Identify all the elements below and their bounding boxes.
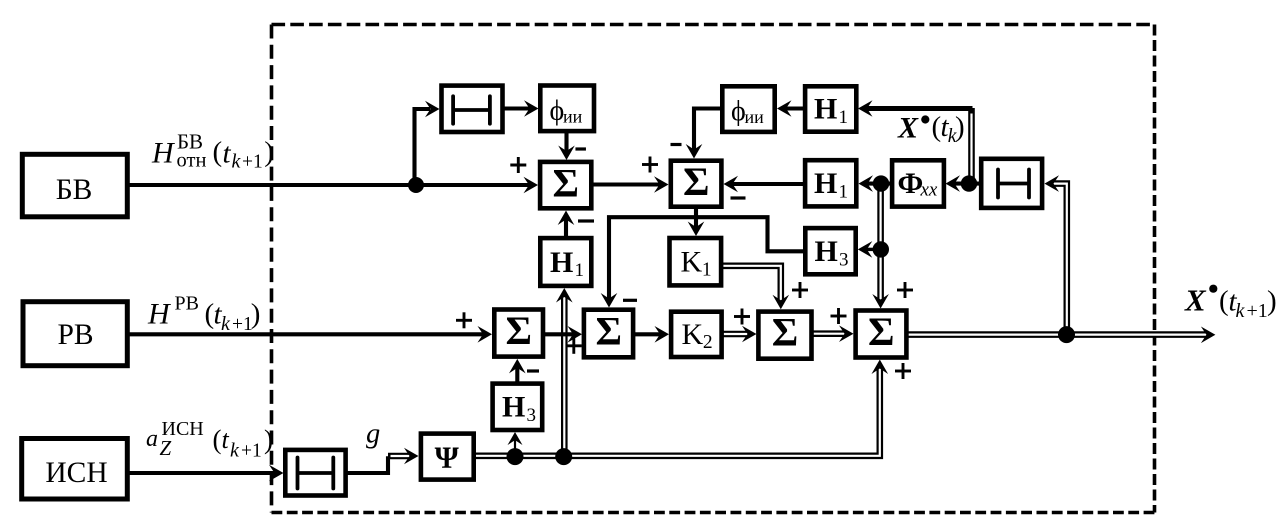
svg-text:1: 1 [839,181,849,202]
wire node to H1L double [556,288,573,456]
label H_otn^BV(t_k+1) [151,130,274,173]
plus before sum1 [510,157,526,173]
wire RV to sum_a [130,326,493,343]
wire feedback output to delay2 double [1045,175,1067,334]
svg-text:1: 1 [575,260,585,281]
summer 1 [540,160,591,208]
wire sum_a to sum_b [545,326,582,343]
block РВ [23,302,127,366]
minus at sum_a bottom [527,369,539,372]
block K2 [671,312,722,357]
plus at sum_d bottom [895,363,911,379]
minus at sum_b top [623,299,637,302]
wire sum_b to K2 [635,326,669,343]
wire K2 to sum_c double [724,326,757,343]
svg-text:Σ: Σ [772,310,798,355]
svg-text:(: ( [213,136,223,168]
wire H3bot to sum_a [509,359,526,382]
wire delay3 to Psi [348,448,419,473]
block H1 left [540,238,591,286]
block H3 bottom [493,384,543,430]
svg-text:): ) [1267,285,1277,317]
svg-text:X: X [897,112,919,145]
label X(t_k) [897,111,965,147]
svg-text:(: ( [1219,285,1229,317]
summer c [758,310,811,359]
svg-text:Н: Н [814,93,837,126]
block Phi_xx [892,160,944,206]
wire node up to delay1 [415,101,440,185]
plus before sum2 [642,157,658,173]
svg-text:Н: Н [814,167,837,200]
svg-text:Σ: Σ [596,309,622,354]
delay block 2 [981,159,1042,208]
label g [366,419,380,450]
wire node to H3bot [508,432,523,456]
wire H1top to phi2 [777,100,803,117]
wire phi1 to sum1 [558,133,575,160]
svg-text:3: 3 [839,249,849,270]
summer d [856,309,907,358]
block Psi [421,434,474,480]
label H^RV(t_k+1) [147,292,260,335]
svg-text:k: k [232,151,242,173]
svg-text:+1: +1 [241,441,262,462]
wire sum_c to sum_d double [813,325,854,342]
wire vertical double X(t_k) [968,108,975,184]
block K1 [670,238,722,285]
svg-text:+1: +1 [1247,300,1268,322]
delay block 1 [442,86,503,132]
plus before sum_c [734,309,750,325]
svg-text:): ) [264,424,273,454]
svg-text:РВ: РВ [57,319,93,351]
delay block 3 [285,450,345,496]
svg-text:БВ: БВ [56,174,93,206]
svg-text:k: k [221,313,231,335]
svg-text:t: t [223,138,232,170]
svg-text:Ψ: Ψ [435,440,460,475]
svg-text:): ) [251,298,261,330]
svg-text:Н: Н [815,235,838,268]
svg-text:K: K [682,318,704,351]
block H1 top [805,86,856,131]
svg-text:K: K [681,245,703,278]
wire sum_d output double [909,327,1216,344]
block БВ [22,154,127,217]
wire K1 to sum_c double [723,266,789,310]
dashed estimator frame [272,25,1155,513]
plus before sum_b [566,338,582,354]
svg-text:k: k [230,440,240,462]
wire Psi output double to sum_d bottom [476,360,889,456]
svg-text:+1: +1 [232,314,253,335]
svg-text:Z: Z [160,436,172,460]
svg-text:Н: Н [550,246,573,279]
block H1 mid [805,160,856,206]
wire Phi_xx to H1mid [859,175,891,192]
block phi_ii 1 [540,86,594,132]
node H3top feed [873,241,889,257]
svg-text:Н: Н [502,391,525,424]
wire H3top to sum_b [601,217,804,307]
wire H1L to sum1 [558,211,575,237]
wire BV to sum1 [130,177,539,194]
svg-text:1: 1 [702,259,712,280]
svg-text:): ) [955,111,965,143]
svg-text:X: X [1184,283,1207,318]
wire sum1 to sum2 [593,176,669,193]
svg-text:ии: ии [745,107,765,127]
svg-text:2: 2 [703,332,713,353]
wire sum2 to K1 [688,209,705,236]
svg-text:a: a [146,426,158,452]
wire delay2 to Phi_xx [946,175,980,192]
block ИСН [22,439,128,500]
minus at phi2 arrow [671,143,682,146]
block phi_ii 2 [722,86,774,132]
svg-text:Σ: Σ [868,309,894,354]
wire double node down to sum_d top [872,184,889,309]
wire X(t_k) feedback to H1top [858,100,973,117]
wire delay1 to phi1 [505,100,539,117]
node Psi line to H3bot [507,448,524,465]
svg-text:3: 3 [527,405,537,426]
svg-text:k: k [1236,300,1246,322]
svg-text:РВ: РВ [175,292,199,314]
svg-text:Ф: Ф [898,167,924,200]
svg-text:H: H [147,298,172,331]
svg-text:Σ: Σ [506,308,532,353]
svg-text:ии: ии [563,107,583,127]
node output [1058,326,1075,343]
plus at sum_c top [792,282,808,298]
svg-text:отн: отн [177,149,207,171]
svg-text:g: g [366,419,380,450]
summer 2 [671,159,722,207]
block H3 top [805,228,855,274]
label a_Z^ISN(t_k+1) [146,418,273,462]
svg-text:(: ( [213,424,222,454]
node delay2 to Phi_xx [961,175,977,191]
svg-text:t: t [222,425,230,454]
summer a [494,308,543,357]
plus before sum_d [831,308,847,324]
summer b [584,309,633,358]
svg-text:xx: xx [920,180,938,201]
wire node to H3top [858,241,881,258]
minus at phi1 arrow [575,147,586,150]
svg-text:Σ: Σ [683,159,709,204]
svg-text:H: H [151,137,176,170]
label X(t_k+1) output [1184,283,1277,322]
svg-text:+1: +1 [242,152,263,173]
svg-text:Σ: Σ [553,160,579,205]
plus at sum_d top [897,282,913,298]
node Psi line to H1L [555,448,572,465]
wire H1mid to sum2 [724,176,804,193]
node Phi_xx out [873,175,889,191]
wire phi2 to sum2 [686,109,720,159]
minus at H1L arrow [578,219,594,222]
plus before sum_a [456,312,472,328]
node on BV line [408,177,424,193]
wire ISN to delay3 [130,465,284,482]
minus at H1mid arrow [731,196,746,199]
svg-text:1: 1 [839,107,849,128]
svg-text:): ) [264,136,274,168]
svg-text:ИСН: ИСН [45,457,107,489]
